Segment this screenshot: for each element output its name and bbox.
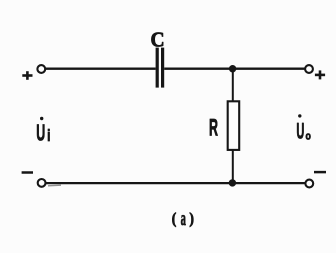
terminal: input + (top-left open circle) bbox=[37, 65, 45, 73]
net label Uo (output phasor voltage) bbox=[296, 114, 311, 143]
wire: resistor top lead bbox=[232, 69, 234, 102]
wire: top rail left segment (input + to capacitor) bbox=[45, 68, 156, 70]
terminal: output - (bottom-right open circle) bbox=[305, 180, 313, 188]
svg-text:i: i bbox=[47, 127, 50, 146]
terminal: output + (top-right open circle) bbox=[305, 65, 313, 73]
svg-text:a: a bbox=[181, 206, 187, 230]
polarity mark + (top-left) bbox=[22, 71, 32, 80]
polarity mark - (bottom-right) bbox=[314, 171, 326, 174]
node: top junction dot bbox=[229, 65, 236, 72]
svg-text:U: U bbox=[296, 118, 304, 143]
svg-text:C: C bbox=[151, 29, 165, 52]
scan artifact below bottom wire bbox=[48, 184, 61, 187]
net label Ui (input phasor voltage) bbox=[36, 117, 50, 146]
svg-text:(: ( bbox=[172, 211, 177, 228]
terminal: input - (bottom-left open circle) bbox=[38, 179, 46, 187]
capacitor C (two vertical plates) bbox=[156, 48, 165, 88]
node: bottom junction dot bbox=[229, 179, 236, 186]
svg-text:o: o bbox=[306, 131, 311, 143]
svg-text:R: R bbox=[209, 116, 218, 142]
resistor R (rectangle body) bbox=[228, 101, 240, 150]
wire: bottom rail bbox=[45, 182, 305, 184]
polarity mark + (top-right) bbox=[315, 70, 325, 79]
svg-text:U: U bbox=[36, 119, 45, 145]
svg-text:): ) bbox=[189, 211, 194, 228]
caption (a) bbox=[172, 206, 194, 230]
wire: top rail right segment (capacitor to output +) bbox=[164, 68, 306, 70]
wire: resistor bottom lead bbox=[232, 150, 234, 183]
polarity mark - (bottom-left) bbox=[22, 171, 33, 174]
